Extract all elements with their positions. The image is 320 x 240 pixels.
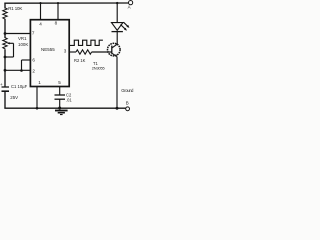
- svg-text:.01: .01: [66, 97, 72, 102]
- svg-text:R2 1K: R2 1K: [74, 58, 86, 63]
- svg-text:6: 6: [32, 58, 35, 63]
- svg-text:B: B: [126, 101, 129, 106]
- svg-text:C1 10µF: C1 10µF: [11, 84, 28, 89]
- svg-text:A: A: [128, 4, 131, 9]
- svg-text:1: 1: [38, 80, 41, 85]
- svg-text:VR1: VR1: [18, 36, 27, 41]
- svg-text:Ground: Ground: [121, 88, 134, 93]
- svg-text:4: 4: [39, 22, 42, 27]
- svg-text:NE555: NE555: [41, 47, 55, 52]
- svg-text:2N3055: 2N3055: [92, 65, 105, 70]
- svg-text:+: +: [0, 82, 3, 87]
- svg-text:5: 5: [58, 80, 61, 85]
- svg-text:3: 3: [64, 49, 67, 54]
- svg-text:2: 2: [32, 68, 35, 73]
- svg-text:100K: 100K: [18, 42, 28, 47]
- svg-text:7: 7: [32, 30, 35, 35]
- svg-text:25V: 25V: [10, 95, 18, 100]
- svg-text:R1 10K: R1 10K: [8, 6, 22, 11]
- svg-text:8: 8: [55, 21, 58, 26]
